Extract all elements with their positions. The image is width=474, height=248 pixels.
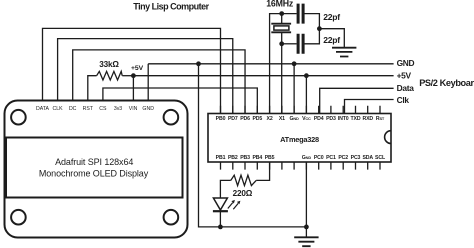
svg-text:PB5: PB5 bbox=[265, 155, 275, 161]
wire caps to ground bbox=[319, 29, 344, 47]
resistor R1 33k bbox=[97, 71, 123, 80]
svg-text:TXD: TXD bbox=[351, 116, 361, 122]
IC ATmega328 body bbox=[208, 114, 391, 163]
svg-text:PC1: PC1 bbox=[326, 155, 336, 161]
wire resistor to LED bbox=[220, 180, 230, 198]
wire C2 to junction bbox=[303, 29, 319, 44]
junction LED cathode bbox=[218, 225, 223, 230]
wire RST to resistor bbox=[88, 76, 97, 102]
wire IC GND bottom pin bbox=[305, 162, 307, 237]
svg-text:Adafruit SPI 128x64: Adafruit SPI 128x64 bbox=[55, 157, 133, 167]
capacitor C2 bbox=[298, 34, 303, 54]
svg-text:22pf: 22pf bbox=[323, 35, 340, 45]
wire DC to PD6 bbox=[73, 50, 245, 114]
wire PB5 to resistor bbox=[256, 162, 269, 180]
svg-text:Tiny Lisp Computer: Tiny Lisp Computer bbox=[133, 1, 209, 11]
svg-text:PB0: PB0 bbox=[216, 116, 226, 122]
svg-text:ATmega328: ATmega328 bbox=[280, 135, 319, 144]
svg-text:PS/2 Keyboard: PS/2 Keyboard bbox=[419, 78, 474, 88]
mounting hole bottom-left bbox=[11, 210, 26, 225]
IC bottom pin stubs bbox=[221, 162, 381, 170]
svg-text:220Ω: 220Ω bbox=[233, 189, 253, 198]
svg-text:33kΩ: 33kΩ bbox=[99, 60, 119, 69]
svg-text:SDA: SDA bbox=[362, 155, 373, 161]
wire X1 bbox=[281, 44, 283, 114]
svg-text:PC3: PC3 bbox=[351, 155, 361, 161]
wire DATA to PB0 bbox=[43, 28, 221, 113]
svg-text:RST: RST bbox=[376, 116, 385, 122]
junction caps bbox=[317, 26, 322, 31]
wire LED to ground bus bbox=[219, 211, 221, 227]
LED D1 bbox=[213, 198, 227, 210]
IC top pin stubs bbox=[221, 106, 381, 114]
crystal Y1 bbox=[271, 24, 291, 33]
svg-text:RST: RST bbox=[83, 106, 94, 112]
wire CLK to PD7 bbox=[58, 39, 233, 114]
svg-text:3v3: 3v3 bbox=[114, 106, 122, 112]
junction ground symbol bbox=[304, 225, 309, 230]
svg-text:PB3: PB3 bbox=[240, 155, 250, 161]
ground symbol main bbox=[294, 237, 318, 246]
svg-text:PB4: PB4 bbox=[252, 155, 262, 161]
svg-text:PD5: PD5 bbox=[252, 116, 262, 122]
svg-text:SCL: SCL bbox=[375, 155, 386, 161]
wire PS2 Data to PD4 bbox=[320, 88, 394, 113]
wire ground bus bbox=[199, 64, 307, 227]
wire PS2 Clk to INT0 bbox=[345, 100, 394, 114]
OLED display module outline bbox=[5, 101, 188, 238]
svg-text:GND: GND bbox=[302, 155, 312, 161]
svg-text:PC0: PC0 bbox=[314, 155, 324, 161]
svg-text:DATA: DATA bbox=[36, 106, 50, 112]
svg-text:INT0: INT0 bbox=[338, 116, 349, 122]
svg-text:VCC: VCC bbox=[302, 116, 311, 122]
wire C1 to junction bbox=[303, 14, 319, 29]
svg-text:RXD: RXD bbox=[362, 116, 373, 122]
svg-text:PD3: PD3 bbox=[326, 116, 336, 122]
svg-text:CLK: CLK bbox=[53, 106, 64, 112]
OLED screen window bbox=[6, 138, 183, 198]
junction GND rail drop bbox=[196, 61, 201, 66]
svg-text:GND: GND bbox=[397, 58, 415, 68]
svg-text:VIN: VIN bbox=[129, 106, 138, 112]
wire CS to PD5 bbox=[103, 88, 257, 114]
svg-text:PC2: PC2 bbox=[338, 155, 348, 161]
wire X2 to crystal top bbox=[270, 14, 297, 114]
resistor R2 220 bbox=[231, 175, 256, 185]
svg-text:+5V: +5V bbox=[131, 65, 144, 72]
svg-text:PD7: PD7 bbox=[228, 116, 238, 122]
svg-text:GND: GND bbox=[290, 116, 300, 122]
svg-text:Data: Data bbox=[397, 83, 415, 93]
wire display GND bbox=[147, 64, 149, 102]
LED emission arrows bbox=[228, 203, 238, 210]
mounting hole top-left bbox=[11, 110, 26, 125]
junction IC GND bbox=[292, 61, 297, 66]
wire crystal bottom to C2 bbox=[282, 43, 297, 45]
IC notch bbox=[385, 131, 391, 144]
svg-text:22pf: 22pf bbox=[323, 12, 340, 22]
svg-text:Clk: Clk bbox=[397, 95, 410, 105]
wire resistor to +5V node bbox=[122, 75, 133, 77]
svg-text:PB2: PB2 bbox=[228, 155, 238, 161]
svg-text:CS: CS bbox=[99, 106, 107, 112]
capacitor C1 bbox=[298, 4, 303, 24]
junction +5V node bbox=[131, 73, 136, 78]
wire VIN bbox=[132, 76, 134, 102]
svg-text:16MHz: 16MHz bbox=[266, 0, 294, 9]
svg-text:PD4: PD4 bbox=[314, 116, 324, 122]
mounting hole top-right bbox=[164, 110, 179, 125]
svg-text:GND: GND bbox=[142, 106, 154, 112]
GND rail bbox=[148, 63, 393, 65]
mounting hole bottom-right bbox=[164, 210, 179, 225]
svg-text:Monochrome OLED Display: Monochrome OLED Display bbox=[39, 168, 149, 178]
svg-text:PB1: PB1 bbox=[216, 155, 226, 161]
ground symbol crystal bbox=[332, 48, 356, 57]
svg-text:X2: X2 bbox=[267, 116, 273, 122]
svg-text:+5V: +5V bbox=[397, 71, 412, 81]
junction crystal top bbox=[279, 11, 284, 16]
wire IC GND pin bbox=[293, 64, 295, 114]
wire IC VCC pin bbox=[305, 76, 307, 114]
+5V rail bbox=[133, 75, 393, 77]
junction IC VCC bbox=[304, 73, 309, 78]
svg-text:DC: DC bbox=[69, 106, 77, 112]
junction crystal bottom bbox=[279, 41, 284, 46]
svg-text:X1: X1 bbox=[279, 116, 285, 122]
svg-text:PD6: PD6 bbox=[240, 116, 250, 122]
